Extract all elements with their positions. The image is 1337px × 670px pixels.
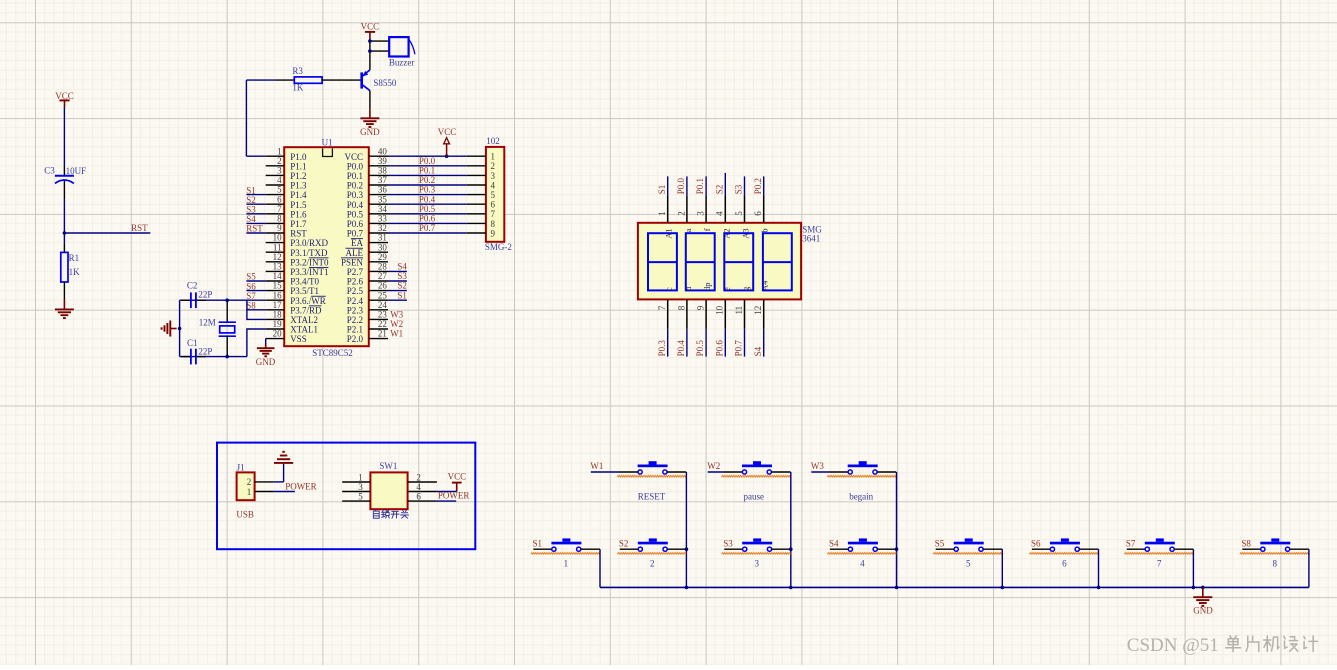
pushbutton S6 xyxy=(1029,538,1098,568)
svg-text:11: 11 xyxy=(273,242,282,252)
svg-text:S7: S7 xyxy=(1126,538,1136,548)
svg-text:S4: S4 xyxy=(397,262,407,272)
svg-text:7: 7 xyxy=(657,305,667,310)
svg-text:3: 3 xyxy=(358,482,363,492)
svg-text:S8550: S8550 xyxy=(373,78,397,88)
svg-text:10UF: 10UF xyxy=(66,166,87,176)
svg-text:P0.0: P0.0 xyxy=(347,161,364,171)
svg-text:begain: begain xyxy=(849,491,873,501)
svg-text:21: 21 xyxy=(378,329,387,339)
svg-text:1: 1 xyxy=(247,487,252,497)
svg-text:20: 20 xyxy=(273,329,283,339)
node junction buzzer pin1 xyxy=(368,39,372,43)
display pin 3 number/name xyxy=(696,211,713,231)
box power section frame xyxy=(217,443,475,550)
wire net P0.0 (display pin 2) xyxy=(676,176,687,222)
watermark CSDN xyxy=(1127,635,1318,656)
node junction S4/W3 xyxy=(895,547,899,551)
U1 pin 6 (P1.5) xyxy=(266,194,307,210)
svg-text:6: 6 xyxy=(277,194,282,204)
U1 pin 9 (RST) xyxy=(266,223,308,239)
pushbutton S1 xyxy=(531,538,600,568)
wire S1 vertical to bus xyxy=(599,549,601,587)
wire C3 to RST node xyxy=(63,181,65,233)
svg-text:12M: 12M xyxy=(199,318,216,328)
svg-text:16: 16 xyxy=(273,290,283,300)
svg-text:S2: S2 xyxy=(397,281,407,291)
svg-text:7: 7 xyxy=(491,209,496,219)
U1 pin 17 (P3.7/RD) xyxy=(266,300,322,316)
wire net S2 (display pin 4) xyxy=(714,173,725,223)
svg-text:XTAL2: XTAL2 xyxy=(290,315,318,325)
svg-text:RST: RST xyxy=(290,229,307,239)
svg-text:SMG-2: SMG-2 xyxy=(485,242,512,252)
node junction S3/W2 xyxy=(789,547,793,551)
svg-text:pause: pause xyxy=(744,491,765,501)
svg-text:dp: dp xyxy=(702,283,712,292)
display pin 5 number/name xyxy=(734,211,751,239)
U1 pin 12 (P3.2/INT0) xyxy=(266,252,329,268)
display digit 3 xyxy=(724,233,753,290)
wire ground bus xyxy=(600,586,1309,588)
svg-text:3: 3 xyxy=(491,171,496,181)
svg-text:P0.3: P0.3 xyxy=(657,340,667,357)
svg-text:S1: S1 xyxy=(533,538,543,548)
node junction crystal bottom xyxy=(225,355,229,359)
svg-text:GND: GND xyxy=(360,127,380,137)
svg-text:EA: EA xyxy=(351,238,363,248)
ground GND (bus) xyxy=(1193,587,1213,615)
svg-text:P3.3/INT1: P3.3/INT1 xyxy=(290,267,328,277)
U1 pin 2 (P1.1) xyxy=(266,156,307,172)
wire crystal bottom rail xyxy=(180,356,247,358)
svg-text:C2: C2 xyxy=(187,281,198,291)
node junction caps-ground xyxy=(178,327,182,331)
svg-text:d: d xyxy=(683,286,693,291)
svg-text:P1.3: P1.3 xyxy=(290,181,307,191)
svg-text:4: 4 xyxy=(277,175,282,185)
capacitor C1 22P xyxy=(187,338,212,365)
svg-text:1: 1 xyxy=(277,146,282,156)
ground (R1) xyxy=(55,299,74,318)
svg-text:P3.6./WR: P3.6./WR xyxy=(290,296,326,306)
wire net S3 (U1 pin 27) xyxy=(388,271,407,281)
U1 pin 33 (P0.6) xyxy=(347,214,388,230)
U1 pin 32 (P0.7) xyxy=(347,223,388,239)
wire net S3 (display pin 5) xyxy=(734,176,745,222)
svg-text:A1: A1 xyxy=(664,228,674,238)
svg-text:P0.7: P0.7 xyxy=(347,229,364,239)
ground earth (J1, bars up) xyxy=(274,452,293,463)
svg-text:P1.0: P1.0 xyxy=(290,152,307,162)
wire S5 vertical to bus xyxy=(1001,549,1003,587)
svg-text:38: 38 xyxy=(378,166,388,176)
svg-text:S8: S8 xyxy=(1241,538,1251,548)
U1 pin 1 (P1.0) xyxy=(266,146,307,162)
net label W2 (U1 pin 22) xyxy=(390,319,403,329)
U1 pin 38 (P0.1) xyxy=(347,166,388,182)
svg-text:S4: S4 xyxy=(829,538,839,548)
svg-text:P0.6: P0.6 xyxy=(347,219,364,229)
svg-text:9: 9 xyxy=(277,223,282,233)
svg-text:30: 30 xyxy=(378,242,388,252)
svg-text:ALE: ALE xyxy=(346,248,364,258)
svg-text:P1.7: P1.7 xyxy=(290,219,307,229)
svg-text:XTAL1: XTAL1 xyxy=(290,325,318,335)
U1 pin 24 (P2.3) xyxy=(347,300,388,316)
wire net P0.2 (display pin 6) xyxy=(753,176,764,222)
svg-text:P0.6: P0.6 xyxy=(419,214,436,224)
svg-text:37: 37 xyxy=(378,175,388,185)
wire net P0.3 (U1 pin 36 to J2 pin 5) xyxy=(388,185,467,195)
svg-text:VCC: VCC xyxy=(438,127,457,137)
svg-text:3641: 3641 xyxy=(802,234,820,244)
display pin 7 number/name xyxy=(657,287,674,310)
wire VCC to C3 xyxy=(63,107,65,175)
wire net S8 (U1 pin 17) xyxy=(246,301,265,311)
svg-text:6: 6 xyxy=(491,200,496,210)
SW1 pins 3/4 xyxy=(342,482,437,492)
U1 pin 30 (ALE) xyxy=(346,242,389,257)
svg-text:P0.3: P0.3 xyxy=(347,190,364,200)
svg-text:C3: C3 xyxy=(44,165,55,175)
pushbutton W2 (pause) xyxy=(707,461,790,501)
svg-text:23: 23 xyxy=(378,310,388,320)
svg-text:36: 36 xyxy=(378,185,388,195)
svg-text:28: 28 xyxy=(378,262,388,272)
svg-text:W3: W3 xyxy=(811,461,824,471)
svg-text:5: 5 xyxy=(966,558,971,568)
svg-text:P2.2: P2.2 xyxy=(347,315,363,325)
node junction bus xyxy=(1192,586,1196,590)
svg-text:P0.2: P0.2 xyxy=(347,181,363,191)
svg-text:3: 3 xyxy=(754,558,759,568)
wire net S2 (U1 pin 6) xyxy=(246,195,265,205)
node junction bus xyxy=(685,586,689,590)
pushbutton W3 (begain) xyxy=(811,461,896,501)
transistor Q1 S8550 (PNP) xyxy=(341,70,397,91)
svg-text:24: 24 xyxy=(378,300,388,310)
svg-text:P0.0: P0.0 xyxy=(676,177,686,194)
svg-text:S3: S3 xyxy=(397,271,407,281)
svg-text:8: 8 xyxy=(1273,558,1278,568)
svg-text:P0.5: P0.5 xyxy=(419,204,436,214)
wire net POWER (J1 pin1) xyxy=(274,482,317,492)
svg-text:W2: W2 xyxy=(707,461,720,471)
svg-text:P1.6: P1.6 xyxy=(290,209,307,219)
svg-text:7: 7 xyxy=(1157,558,1162,568)
wire W1 vertical to bus xyxy=(685,472,687,587)
svg-text:P2.4: P2.4 xyxy=(347,296,364,306)
svg-text:17: 17 xyxy=(273,300,283,310)
wire net S4 (U1 pin 8) xyxy=(246,214,265,224)
svg-text:33: 33 xyxy=(378,214,388,224)
svg-text:S1: S1 xyxy=(397,290,407,300)
U1 pin 34 (P0.5) xyxy=(347,204,388,220)
power VCC (arrow port, connector) xyxy=(438,127,457,156)
U1 pin 40 (VCC) xyxy=(344,146,388,162)
svg-text:W1: W1 xyxy=(390,329,403,339)
svg-text:POWER: POWER xyxy=(438,491,470,501)
node RST junction xyxy=(63,231,67,235)
svg-text:P1.1: P1.1 xyxy=(290,161,306,171)
svg-text:VSS: VSS xyxy=(290,334,307,344)
U1 pin 14 (P3.4/T0) xyxy=(266,271,320,287)
node junction bus xyxy=(789,586,793,590)
svg-text:29: 29 xyxy=(378,252,388,262)
node junction bus xyxy=(895,586,899,590)
svg-text:5: 5 xyxy=(358,491,363,501)
wire J1 pin2 to earth xyxy=(274,464,284,482)
svg-text:2: 2 xyxy=(416,472,421,482)
display digit 2 xyxy=(686,233,715,290)
pushbutton S4 xyxy=(827,538,896,568)
svg-text:22P: 22P xyxy=(198,346,212,356)
wire net RST (U1 pin 9) xyxy=(246,224,265,234)
node junction bus xyxy=(1201,586,1205,590)
svg-text:S4: S4 xyxy=(753,346,763,356)
wire net P0.3 (display pin 7) xyxy=(657,299,668,356)
svg-text:A2: A2 xyxy=(721,228,731,238)
U1 pin 3 (P1.2) xyxy=(266,166,307,182)
svg-text:S7: S7 xyxy=(246,291,256,301)
svg-text:GND: GND xyxy=(256,357,276,367)
switch SW1 (self-locking) xyxy=(370,461,407,509)
svg-text:34: 34 xyxy=(378,204,388,214)
svg-text:P0.5: P0.5 xyxy=(347,209,364,219)
svg-text:5: 5 xyxy=(491,190,496,200)
svg-text:P2.5: P2.5 xyxy=(347,286,364,296)
wire net P0.6 (U1 pin 33 to J2 pin 8) xyxy=(388,214,467,224)
svg-text:e: e xyxy=(721,287,731,291)
wire net S1 (display pin 1) xyxy=(657,176,668,222)
svg-text:P0.4: P0.4 xyxy=(419,194,436,204)
svg-text:U1: U1 xyxy=(322,137,333,147)
svg-text:S6: S6 xyxy=(246,281,256,291)
wire S6 vertical to bus xyxy=(1098,549,1100,587)
pushbutton S5 xyxy=(933,538,1002,568)
svg-text:2: 2 xyxy=(650,558,655,568)
svg-text:8: 8 xyxy=(277,214,282,224)
svg-text:11: 11 xyxy=(734,306,744,315)
display DS1 SMG 3641 body xyxy=(638,223,822,300)
svg-text:102: 102 xyxy=(486,136,500,146)
svg-text:10: 10 xyxy=(715,305,725,315)
svg-text:f: f xyxy=(702,228,712,231)
svg-text:14: 14 xyxy=(273,271,283,281)
svg-text:3: 3 xyxy=(277,166,282,176)
U1 pin 28 (P2.7) xyxy=(347,262,388,278)
svg-text:S8: S8 xyxy=(246,301,256,311)
svg-text:A3: A3 xyxy=(741,228,751,238)
svg-text:VCC: VCC xyxy=(361,21,380,31)
resistor R1 1K xyxy=(61,233,80,299)
svg-text:4: 4 xyxy=(860,558,865,568)
U1 pin 39 (P0.0) xyxy=(347,156,388,172)
node junction S2/W1 xyxy=(685,547,689,551)
svg-text:a: a xyxy=(683,228,693,232)
wire XTAL1 (U1 pin19) xyxy=(247,329,266,357)
svg-text:4: 4 xyxy=(416,482,421,492)
svg-text:15: 15 xyxy=(273,281,283,291)
U1 pin 20 (VSS) xyxy=(266,329,307,345)
svg-text:VCC: VCC xyxy=(344,152,363,162)
svg-text:13: 13 xyxy=(273,262,283,272)
IC U1 STC89C52 body xyxy=(284,137,369,357)
display digit 4 xyxy=(763,233,792,290)
svg-text:2: 2 xyxy=(676,211,686,216)
svg-text:c: c xyxy=(664,287,674,291)
svg-text:GND: GND xyxy=(1193,606,1213,616)
U1 pin 37 (P0.2) xyxy=(347,175,388,191)
wire net S6 (U1 pin 15) xyxy=(246,281,265,291)
power VCC (SW1 pin4) xyxy=(448,471,467,491)
power VCC (reset branch) xyxy=(55,91,74,107)
svg-text:P1.2: P1.2 xyxy=(290,171,306,181)
svg-text:VCC: VCC xyxy=(55,91,74,101)
svg-text:P0.2: P0.2 xyxy=(419,175,435,185)
U1 pin 4 (P1.3) xyxy=(266,175,307,191)
svg-text:9: 9 xyxy=(491,228,496,238)
svg-text:P0.4: P0.4 xyxy=(676,340,686,357)
U1 pin 27 (P2.6) xyxy=(347,271,388,287)
svg-text:S6: S6 xyxy=(1031,538,1041,548)
svg-text:1: 1 xyxy=(564,558,569,568)
pushbutton S2 xyxy=(617,538,686,568)
wire net P0.1 (display pin 3) xyxy=(695,176,706,222)
svg-text:P1.5: P1.5 xyxy=(290,200,307,210)
U1 pin 10 (P3.0/RXD) xyxy=(266,233,329,249)
svg-text:32: 32 xyxy=(378,223,387,233)
svg-text:P2.0: P2.0 xyxy=(347,334,364,344)
wire crystal top rail xyxy=(180,299,247,301)
U1 pin 25 (P2.4) xyxy=(347,290,388,306)
svg-text:P3.0/RXD: P3.0/RXD xyxy=(290,238,328,248)
svg-text:W1: W1 xyxy=(590,461,603,471)
resistor R3 1K xyxy=(275,66,341,93)
svg-text:A4: A4 xyxy=(760,280,770,291)
wire net S1 (U1 pin 5) xyxy=(246,185,265,195)
U1 pin 29 (PSEN) xyxy=(341,252,388,268)
display pin 2 number/name xyxy=(676,211,693,232)
svg-text:S2: S2 xyxy=(246,195,256,205)
wire net P0.5 (display pin 9) xyxy=(695,299,706,356)
svg-text:4: 4 xyxy=(491,180,496,190)
svg-text:5: 5 xyxy=(734,211,744,216)
svg-text:STC89C52: STC89C52 xyxy=(312,348,353,358)
svg-text:35: 35 xyxy=(378,194,388,204)
capacitor C3 10UF (polarized) xyxy=(44,165,86,183)
svg-text:2: 2 xyxy=(277,156,282,166)
pushbutton S8 xyxy=(1240,538,1309,568)
svg-text:S1: S1 xyxy=(657,185,667,195)
svg-text:R1: R1 xyxy=(69,253,80,263)
pushbutton W1 (RESET) xyxy=(590,461,686,501)
svg-text:5: 5 xyxy=(277,185,282,195)
wire RST net label xyxy=(64,223,150,233)
svg-text:40: 40 xyxy=(378,146,388,156)
svg-text:22P: 22P xyxy=(198,289,212,299)
U1 pin 18 (XTAL2) xyxy=(266,310,318,326)
svg-text:9: 9 xyxy=(696,305,706,310)
svg-text:8: 8 xyxy=(491,219,496,229)
ground (crystal, left-facing) xyxy=(162,321,177,337)
wire net S3 (U1 pin 7) xyxy=(246,205,265,215)
wire VCC to buzzer pins xyxy=(370,40,389,70)
U1 pin 5 (P1.4) xyxy=(266,185,307,201)
net label W1 (U1 pin 21) xyxy=(390,329,403,339)
svg-text:P0.0: P0.0 xyxy=(419,156,436,166)
wire net S4 (display pin 12) xyxy=(753,299,764,356)
svg-text:W2: W2 xyxy=(390,319,403,329)
svg-text:P3.2/INT0: P3.2/INT0 xyxy=(290,257,329,267)
svg-text:W3: W3 xyxy=(390,310,403,320)
svg-text:S5: S5 xyxy=(246,272,256,282)
svg-text:R3: R3 xyxy=(292,66,303,76)
U1 pin 16 (P3.6/WR) xyxy=(266,290,326,306)
svg-text:S2: S2 xyxy=(619,538,629,548)
svg-text:RST: RST xyxy=(246,224,263,234)
wire collector to GND xyxy=(369,91,371,110)
svg-text:SW1: SW1 xyxy=(379,461,397,471)
wire XTAL2 (U1 pin18) xyxy=(247,300,266,319)
svg-text:6: 6 xyxy=(1062,558,1067,568)
svg-text:P2.6: P2.6 xyxy=(347,277,364,287)
net label W3 (U1 pin 23) xyxy=(390,310,403,320)
svg-text:VCC: VCC xyxy=(448,471,467,481)
display pin 12 number/name xyxy=(753,280,770,315)
node junction crystal top xyxy=(225,298,229,302)
svg-text:P0.3: P0.3 xyxy=(419,185,436,195)
label SW1 self-locking-switch (CJK) xyxy=(373,510,408,518)
svg-text:3: 3 xyxy=(696,211,706,216)
svg-text:S3: S3 xyxy=(723,538,733,548)
svg-text:12: 12 xyxy=(753,306,763,315)
svg-text:1: 1 xyxy=(491,152,496,162)
svg-text:POWER: POWER xyxy=(285,482,317,492)
wire net S4 (U1 pin 28) xyxy=(388,262,407,272)
svg-text:S5: S5 xyxy=(935,538,945,548)
wire net P0.0 (U1 pin 39 to J2 pin 2) xyxy=(388,156,467,166)
svg-text:12: 12 xyxy=(273,252,282,262)
display pin 10 number/name xyxy=(715,287,732,315)
wire net P0.1 (U1 pin 38 to J2 pin 3) xyxy=(388,166,467,176)
svg-text:S3: S3 xyxy=(734,184,744,194)
wire net S7 (U1 pin 16) xyxy=(246,291,265,301)
wire VCC (U1 pin40 to J2 pin1) xyxy=(388,155,467,157)
display digit 1 xyxy=(648,233,677,290)
U1 pin 11 (P3.1/TXD) xyxy=(266,242,328,257)
U1 pin 21 (P2.0) xyxy=(347,329,388,345)
wire W2 vertical to bus xyxy=(790,472,792,587)
wire net P0.7 (display pin 11) xyxy=(734,299,745,356)
pushbutton S3 xyxy=(722,538,791,568)
svg-text:31: 31 xyxy=(378,233,387,243)
U1 pin 15 (P3.5/T1) xyxy=(266,281,319,297)
svg-text:4: 4 xyxy=(715,211,725,216)
svg-text:1: 1 xyxy=(657,211,667,216)
svg-text:S3: S3 xyxy=(246,205,256,215)
svg-text:Buzzer: Buzzer xyxy=(389,57,414,67)
SW1 pins 1/2 xyxy=(342,472,437,482)
connector J2 102 / SMG-2 xyxy=(467,136,512,252)
svg-text:25: 25 xyxy=(378,290,388,300)
svg-text:P3.1/TXD: P3.1/TXD xyxy=(290,248,328,258)
display pin 8 number/name xyxy=(676,286,693,310)
svg-text:S4: S4 xyxy=(246,214,256,224)
svg-text:22: 22 xyxy=(378,319,387,329)
svg-text:P0.1: P0.1 xyxy=(695,178,705,194)
